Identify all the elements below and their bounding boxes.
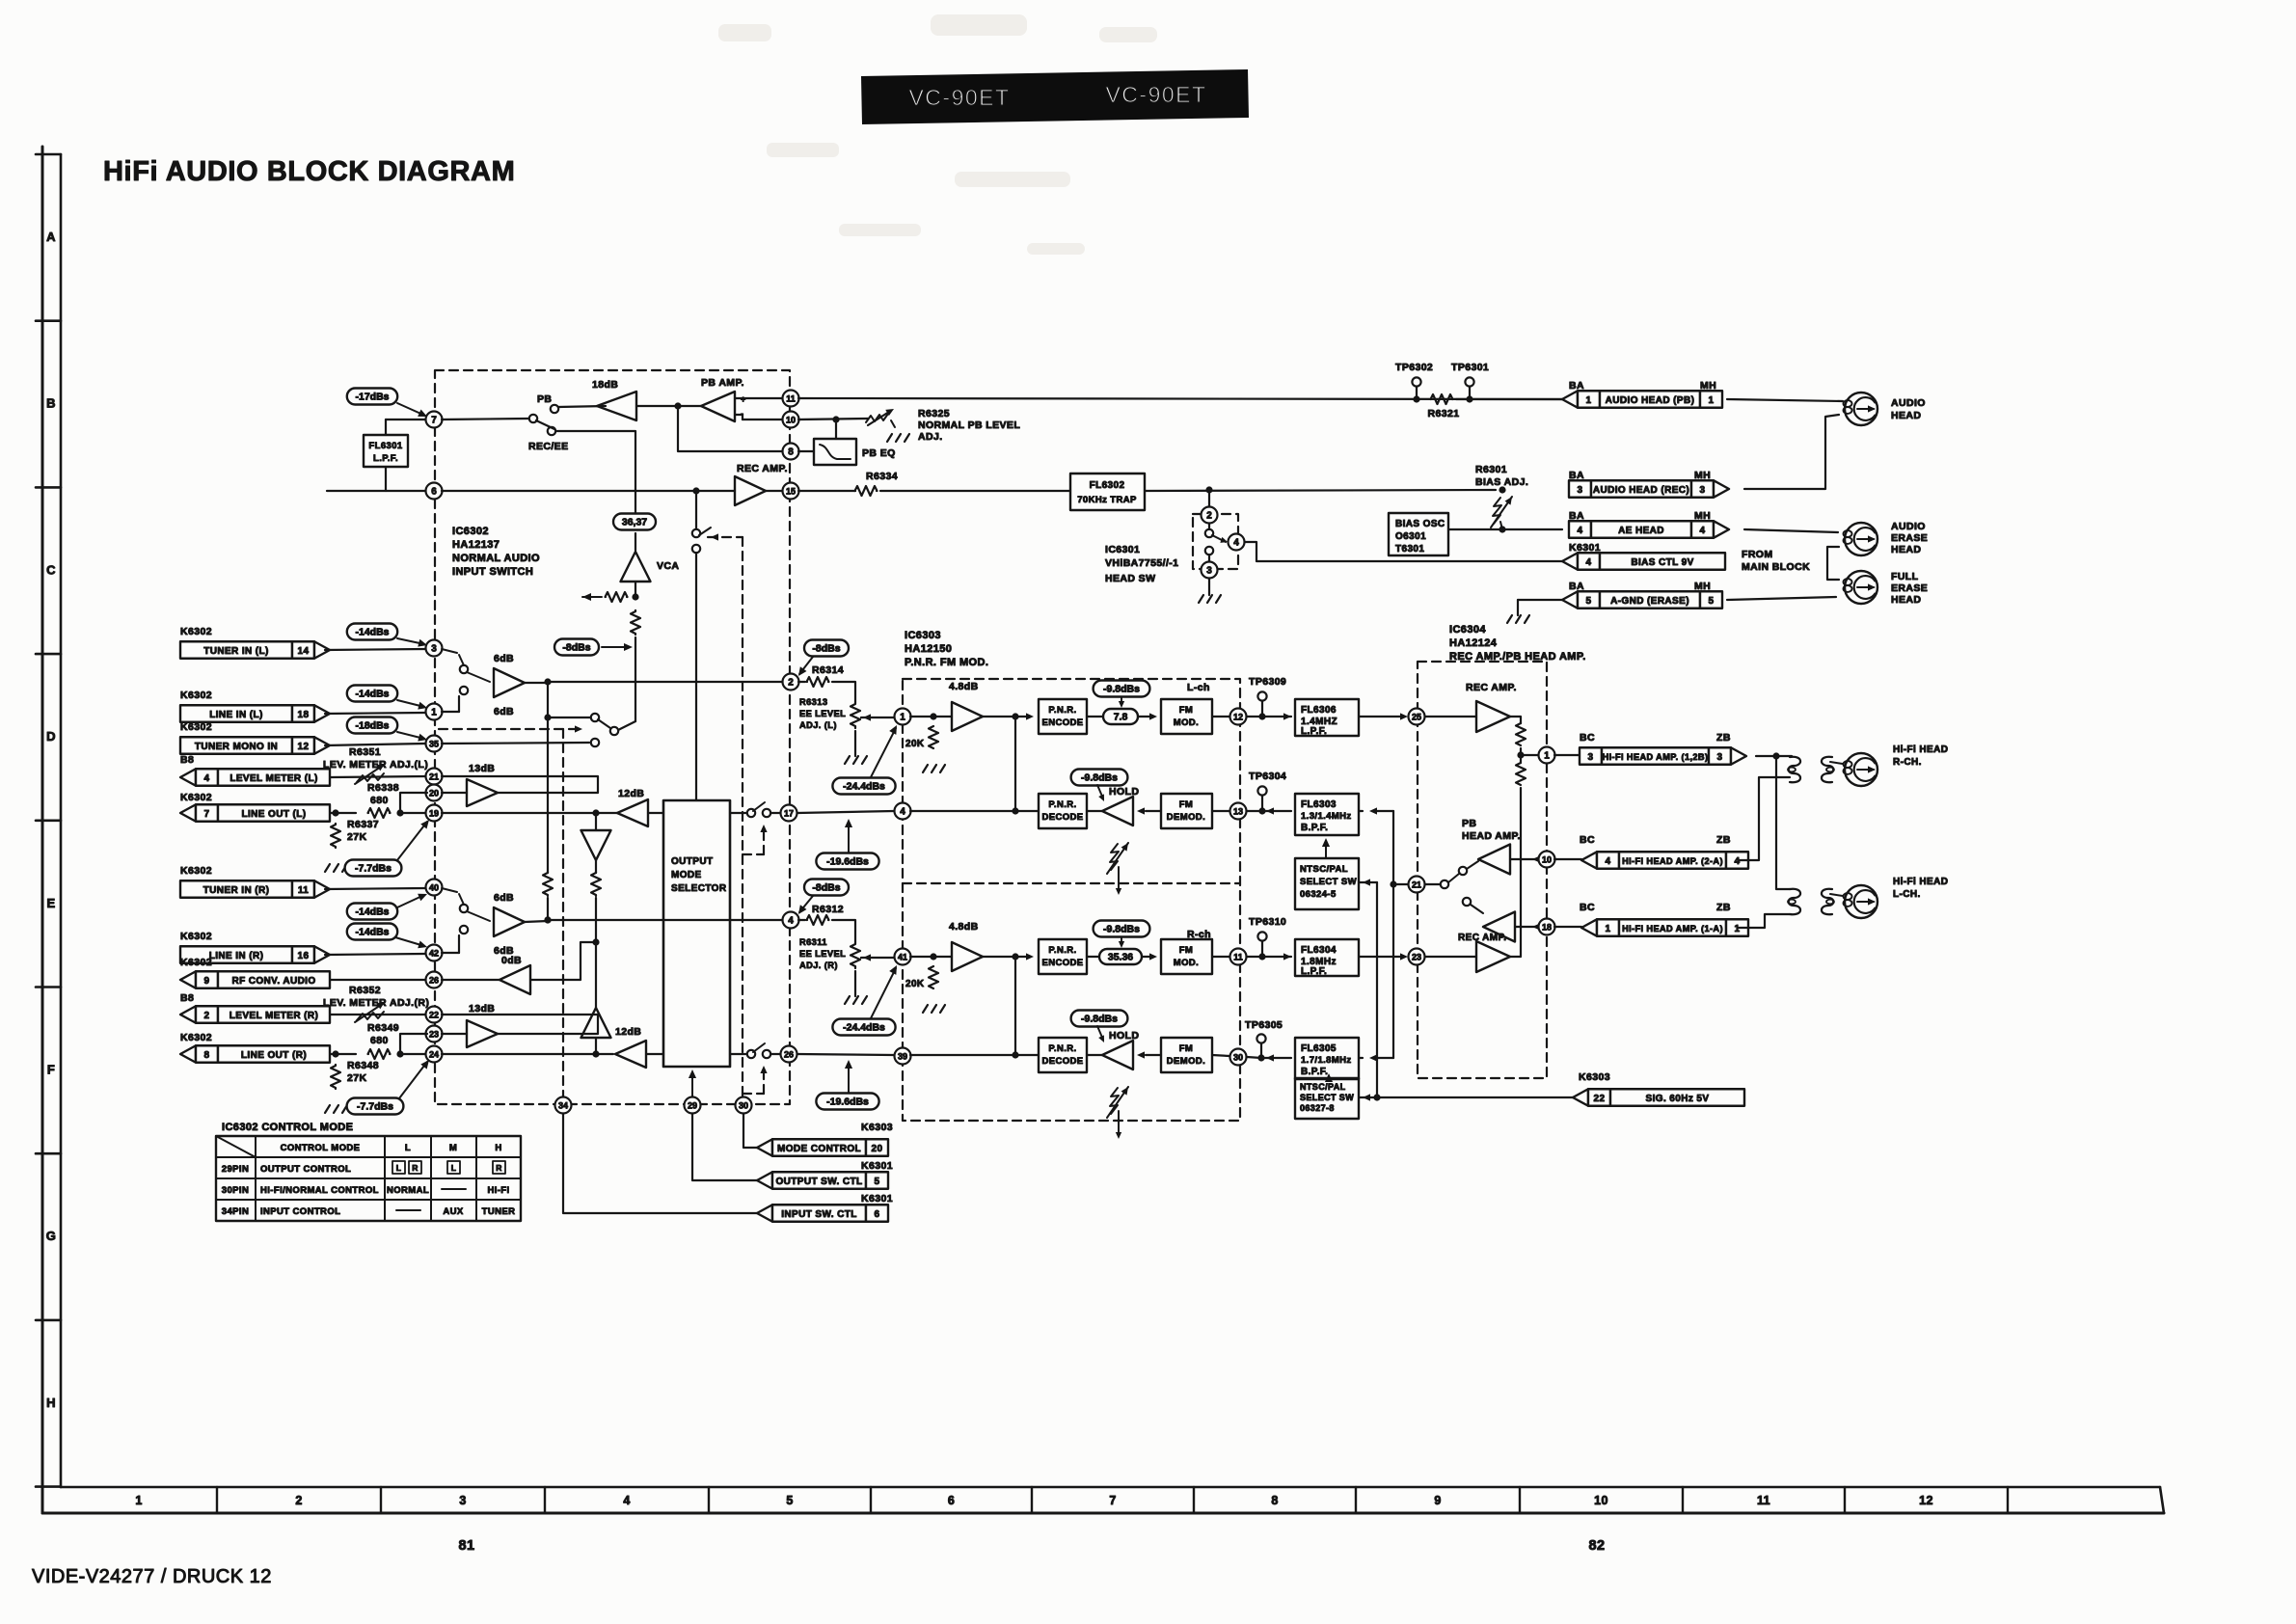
svg-text:NORMAL AUDIO: NORMAL AUDIO — [452, 553, 540, 564]
resistor divider lower — [1516, 763, 1526, 785]
arrow -9.8 dec L — [1097, 785, 1103, 798]
node R6348 tap — [332, 1050, 338, 1057]
svg-text:1: 1 — [1544, 750, 1550, 761]
svg-text:F: F — [47, 1063, 55, 1077]
connector AE HEAD — [1569, 521, 1591, 538]
svg-text:27K: 27K — [347, 831, 366, 843]
pin 29 IC6302 — [685, 1097, 701, 1114]
rec level resistor with arrow — [635, 582, 636, 597]
svg-text:ZB: ZB — [1716, 902, 1731, 913]
svg-text:1.3/1.4MHz: 1.3/1.4MHz — [1301, 811, 1352, 822]
svg-text:6: 6 — [875, 1209, 880, 1220]
svg-text:27K: 27K — [347, 1072, 366, 1084]
svg-text:TUNER IN (L): TUNER IN (L) — [203, 646, 269, 657]
wire 13dB L feedback loop — [442, 776, 598, 793]
wire encode-decode R link — [1014, 957, 1016, 1055]
wire R transformer to head — [1830, 762, 1843, 764]
wire pb amps to divider — [1510, 858, 1521, 860]
amplifier 6dB L — [494, 668, 525, 697]
pin 23 IC6304 — [1409, 949, 1425, 965]
pin 39 IC6303 — [895, 1048, 911, 1065]
svg-text:LINE OUT (L): LINE OUT (L) — [241, 809, 306, 820]
connector INPUT SW CTL 6 — [757, 1204, 772, 1222]
wire R head link down — [1776, 756, 1790, 889]
svg-text:NORMAL PB LEVEL: NORMAL PB LEVEL — [918, 420, 1020, 431]
svg-text:MAIN BLOCK: MAIN BLOCK — [1742, 561, 1810, 573]
svg-text:3: 3 — [1588, 752, 1594, 763]
svg-text:4: 4 — [1735, 856, 1741, 867]
svg-text:-17dBs: -17dBs — [355, 392, 389, 403]
pot R6352 — [331, 1014, 425, 1015]
wire pin30 to mode control — [743, 1114, 757, 1148]
svg-text:K6303: K6303 — [861, 1122, 893, 1133]
svg-text:ERASE: ERASE — [1891, 532, 1928, 544]
svg-text:LEVEL METER (L): LEVEL METER (L) — [230, 773, 317, 784]
wire pin17 to PNR decode L — [797, 811, 894, 813]
svg-text:MOD.: MOD. — [1174, 958, 1199, 968]
svg-text:-19.6dBs: -19.6dBs — [826, 856, 869, 868]
svg-text:29: 29 — [688, 1100, 697, 1110]
svg-text:1: 1 — [1586, 395, 1592, 406]
svg-text:5: 5 — [1586, 596, 1592, 607]
pin 42 IC6302 — [426, 945, 443, 961]
svg-text:SELECT SW: SELECT SW — [1300, 877, 1357, 887]
connector OUTPUT SW CTL 5 — [757, 1172, 772, 1189]
svg-text:AUDIO: AUDIO — [1891, 521, 1926, 532]
svg-text:IC6301: IC6301 — [1105, 544, 1140, 555]
svg-text:TP6301: TP6301 — [1451, 362, 1489, 373]
svg-text:-14dBs: -14dBs — [355, 627, 389, 638]
svg-text:26: 26 — [429, 975, 439, 985]
connector BIAS CTL 9V — [1562, 553, 1578, 570]
svg-text:G: G — [46, 1229, 57, 1243]
label -14dBs line L — [347, 686, 397, 702]
svg-text:INPUT SW. CTL: INPUT SW. CTL — [781, 1209, 857, 1220]
pin 3 IC6301 — [1202, 562, 1218, 579]
svg-text:R6348: R6348 — [347, 1060, 379, 1071]
label -14dBs tuner R — [347, 904, 397, 920]
connector A-GND (ERASE) — [1562, 591, 1578, 609]
node decode L in — [1012, 807, 1018, 814]
arrow -8dBs to chain — [602, 646, 629, 648]
svg-text:BIAS ADJ.: BIAS ADJ. — [1475, 476, 1528, 488]
svg-text:EE LEVEL: EE LEVEL — [799, 949, 846, 959]
wire pin26 to PNR decode R — [797, 1054, 894, 1055]
svg-text:6: 6 — [948, 1494, 955, 1507]
wire tuner in R to pin 40 — [325, 888, 425, 889]
pin 30 IC6303 — [1212, 1055, 1229, 1056]
svg-text:D: D — [46, 729, 56, 744]
svg-text:K6301: K6301 — [861, 1160, 893, 1172]
label -19.6dBs L — [816, 853, 878, 870]
node R6337 tap — [332, 809, 338, 816]
node PB amp output junction — [674, 402, 681, 409]
connector LINE IN (L) 18 — [180, 705, 292, 722]
connector HiFi HEAD AMP (1,2B) — [1554, 754, 1580, 756]
svg-text:FROM: FROM — [1742, 549, 1773, 560]
wire 2-A to R transformer — [1739, 777, 1790, 860]
svg-text:-9.8dBs: -9.8dBs — [1103, 684, 1140, 695]
wire to pin 20 — [400, 793, 427, 813]
pin 2 IC6302 — [783, 674, 799, 690]
IC U6302 dashed outline — [435, 370, 790, 1104]
svg-text:PB: PB — [537, 393, 552, 405]
svg-text:VHiBA7755//-1: VHiBA7755//-1 — [1105, 557, 1178, 569]
svg-text:12: 12 — [1919, 1494, 1933, 1507]
block P.N.R. ENCODE L — [1039, 699, 1087, 734]
oscillator BIAS OSC — [1389, 513, 1448, 555]
svg-text:-14dBs: -14dBs — [355, 689, 389, 700]
svg-text:PB EQ: PB EQ — [862, 447, 896, 459]
left ruler — [41, 147, 44, 1513]
svg-text:11: 11 — [298, 885, 309, 896]
pin 26 IC6302 — [426, 972, 443, 988]
connector SIG 60Hz 5V — [1573, 1089, 1588, 1106]
svg-text:34: 34 — [558, 1100, 568, 1110]
pin 4 IC6302 — [783, 912, 799, 929]
svg-text:70KHz TRAP: 70KHz TRAP — [1077, 495, 1137, 505]
svg-text:8: 8 — [204, 1050, 210, 1061]
dashed output ctl bus — [742, 537, 743, 1104]
connector HiFi HEAD AMP (1-A) — [1554, 926, 1581, 928]
svg-text:-7.7dBs: -7.7dBs — [355, 863, 392, 875]
svg-text:ENCODE: ENCODE — [1041, 717, 1083, 728]
node mono bus rf tap — [592, 938, 599, 945]
svg-text:MODE CONTROL: MODE CONTROL — [777, 1144, 861, 1154]
svg-text:REC/EE: REC/EE — [528, 441, 569, 452]
connector MODE CONTROL 20 — [757, 1139, 772, 1156]
node encode R split — [983, 956, 1030, 958]
svg-text:12dB: 12dB — [615, 1026, 641, 1038]
svg-text:Hi-Fi HEAD AMP. (1,2B): Hi-Fi HEAD AMP. (1,2B) — [1603, 752, 1709, 762]
pin 13 IC6303 — [1212, 810, 1229, 812]
svg-text:RF CONV. AUDIO: RF CONV. AUDIO — [231, 976, 315, 987]
node hifi R head split — [1756, 755, 1792, 757]
node vca resistor junction — [632, 593, 638, 600]
pot R6351 — [331, 776, 425, 777]
svg-text:DECODE: DECODE — [1041, 1056, 1083, 1067]
wire tuner mono to pin35 — [325, 744, 425, 745]
arrow -19.6dBs R — [848, 1063, 850, 1093]
svg-text:-9.8dBs: -9.8dBs — [1081, 1014, 1118, 1025]
svg-text:P.N.R. FM MOD.: P.N.R. FM MOD. — [905, 657, 988, 668]
connector AUDIO HEAD (PB) — [1562, 391, 1578, 408]
node x568 at 744 — [544, 714, 551, 720]
node AE line junction — [1499, 526, 1505, 532]
IC U6303 dashed outline — [903, 679, 1240, 1121]
pin 12 IC6303 — [1212, 716, 1229, 717]
wire bias osc to AE connector — [1448, 528, 1562, 530]
svg-text:E: E — [46, 896, 55, 910]
wire 6dB L out to L-ch node — [525, 682, 548, 684]
svg-text:R6321: R6321 — [1428, 408, 1460, 420]
connector TUNER IN (L) 14 — [180, 641, 292, 659]
label -24.4dBs L — [832, 778, 895, 795]
node select bus bottom — [1373, 1094, 1380, 1100]
svg-text:FL6304: FL6304 — [1301, 945, 1337, 956]
wire line in L to pin1 — [325, 713, 425, 714]
svg-text:1: 1 — [1606, 924, 1611, 934]
wire FL select bus vertical — [1392, 811, 1394, 1058]
svg-text:-8dBs: -8dBs — [562, 642, 590, 654]
svg-text:680: 680 — [370, 795, 389, 806]
ground R6311 — [854, 971, 856, 996]
svg-text:20: 20 — [872, 1144, 883, 1154]
svg-text:-18dBs: -18dBs — [355, 720, 389, 732]
amplifier PB head amp lower — [1483, 912, 1515, 942]
svg-text:R6314: R6314 — [812, 664, 844, 676]
svg-text:R: R — [412, 1163, 419, 1173]
svg-text:CONTROL MODE: CONTROL MODE — [281, 1143, 361, 1153]
node on R-ch wire x568 — [544, 916, 551, 923]
svg-text:680: 680 — [370, 1035, 389, 1046]
svg-text:NTSC/PAL: NTSC/PAL — [1300, 1082, 1346, 1092]
svg-text:ERASE: ERASE — [1891, 582, 1928, 594]
svg-text:24: 24 — [429, 1049, 439, 1059]
pin 7 IC6302 — [426, 412, 443, 428]
svg-text:4: 4 — [1700, 526, 1706, 536]
svg-text:ENCODE: ENCODE — [1041, 958, 1083, 968]
svg-text:A-GND (ERASE): A-GND (ERASE) — [1610, 596, 1689, 607]
svg-text:23: 23 — [1412, 952, 1421, 961]
svg-text:16: 16 — [298, 951, 310, 961]
svg-text:29PIN: 29PIN — [222, 1164, 249, 1175]
pin 21 IC6304 — [1409, 877, 1425, 893]
svg-text:BIAS CTL 9V: BIAS CTL 9V — [1631, 557, 1693, 568]
svg-text:39: 39 — [898, 1051, 907, 1061]
wire selector to output switch L — [730, 812, 747, 814]
pin 17 IC6302 — [770, 812, 782, 814]
svg-text:6: 6 — [431, 486, 437, 497]
svg-text:14: 14 — [298, 646, 310, 657]
resistor below VCA — [631, 610, 640, 635]
wire FL6301 to pin 6 — [385, 467, 387, 491]
svg-text:AUDIO: AUDIO — [1891, 397, 1926, 409]
svg-text:17: 17 — [784, 808, 794, 818]
svg-text:7: 7 — [1109, 1494, 1116, 1507]
svg-text:R6325: R6325 — [918, 408, 950, 420]
filter FL6303 — [1295, 794, 1359, 835]
bottom ruler — [42, 1512, 2164, 1515]
wire encode-decode L link — [1014, 717, 1016, 811]
svg-text:4: 4 — [900, 806, 905, 817]
wire pin7 to FL6301 — [386, 419, 425, 420]
svg-text:O6301: O6301 — [1395, 531, 1426, 542]
svg-text:PB: PB — [1462, 818, 1476, 829]
svg-text:HOLD: HOLD — [1109, 1030, 1139, 1042]
filter FL6305 — [1295, 1038, 1359, 1079]
svg-text:6dB: 6dB — [494, 653, 514, 664]
wire pin8 to PB EQ — [798, 450, 814, 452]
svg-text:VC-90ET: VC-90ET — [1105, 82, 1206, 107]
svg-text:PB AMP.: PB AMP. — [701, 377, 744, 389]
amplifier HOLD R — [1102, 1041, 1133, 1069]
input select switch R — [460, 905, 468, 912]
dashed input ctl bus — [439, 728, 579, 730]
ground IC6301 pin3 — [1208, 579, 1210, 595]
svg-text:K6302: K6302 — [180, 690, 212, 701]
resistor L-R mix left — [543, 872, 553, 896]
svg-text:4: 4 — [1606, 856, 1611, 867]
svg-text:BC: BC — [1580, 902, 1595, 913]
svg-text:06324-5: 06324-5 — [1300, 889, 1337, 900]
svg-text:ZB: ZB — [1716, 834, 1731, 846]
wire AE connector to erase head — [1744, 529, 1838, 532]
label -9.8dBs mod R — [1094, 921, 1150, 937]
pin 19 IC6302 — [426, 805, 443, 822]
transformer rotary L-CH — [1789, 889, 1800, 914]
wire line out L — [400, 812, 425, 814]
svg-text:TP6309: TP6309 — [1249, 676, 1286, 688]
dashed ctl to output switch R — [743, 1093, 764, 1095]
wire FL6305 input from select bus — [1373, 1057, 1393, 1059]
svg-text:23: 23 — [429, 1029, 439, 1039]
svg-text:-19.6dBs: -19.6dBs — [826, 1096, 869, 1108]
svg-text:INPUT CONTROL: INPUT CONTROL — [260, 1206, 340, 1217]
svg-text:HEAD: HEAD — [1891, 594, 1921, 606]
svg-text:TP6304: TP6304 — [1249, 771, 1286, 782]
output switch R — [747, 1050, 755, 1058]
node pin1 divider — [1517, 751, 1524, 758]
pot HOLD R — [1110, 1088, 1119, 1114]
svg-text:R6352: R6352 — [349, 985, 381, 996]
svg-text:-9.8dBs: -9.8dBs — [1081, 772, 1118, 784]
svg-text:7.8: 7.8 — [1114, 712, 1128, 723]
pot HOLD L — [1110, 844, 1119, 870]
node L-ch mix — [544, 678, 551, 685]
ground a-gnd line — [1518, 599, 1562, 601]
svg-text:Hi-Fi HEAD AMP. (2-A): Hi-Fi HEAD AMP. (2-A) — [1622, 856, 1723, 866]
svg-text:HEAD: HEAD — [1891, 410, 1921, 421]
wire pin10 node to PB EQ — [835, 420, 837, 439]
amplifier HOLD L — [1102, 797, 1133, 826]
transducer HiFi head L — [1845, 885, 1877, 918]
model name header bar — [861, 69, 1249, 124]
pin 30 IC6302 — [736, 1097, 752, 1114]
pin 15 IC6302 — [766, 490, 782, 492]
pot R6325 normal PB level adj — [868, 412, 889, 425]
wire R-ch through selector — [663, 919, 730, 921]
svg-text:DEMOD.: DEMOD. — [1167, 1056, 1205, 1067]
svg-text:LEVEL METER (R): LEVEL METER (R) — [230, 1011, 318, 1021]
arrow -8dBs to pin2 — [799, 657, 813, 674]
label -9.8dBs mod L — [1094, 681, 1150, 697]
node pin21 tap — [1390, 880, 1396, 887]
pin 10 IC6304 — [1521, 858, 1538, 860]
input select switch L — [460, 665, 468, 673]
svg-text:11: 11 — [1233, 952, 1243, 961]
svg-text:8: 8 — [1271, 1494, 1278, 1507]
wire a-gnd connector to full erase head — [1727, 597, 1836, 600]
svg-text:K6302: K6302 — [180, 865, 212, 877]
svg-text:18: 18 — [298, 710, 310, 720]
arrow -9.8 dec R — [1097, 1026, 1103, 1040]
svg-text:K6302: K6302 — [180, 957, 212, 968]
wire pin35 to aux contact — [442, 743, 589, 744]
pin 4 IC6303 — [895, 803, 911, 820]
svg-text:20: 20 — [429, 788, 439, 798]
svg-text:5: 5 — [786, 1494, 793, 1507]
transducer AUDIO ERASE HEAD — [1845, 523, 1877, 555]
wire PB connector to audio head — [1727, 399, 1843, 401]
svg-text:30: 30 — [1233, 1052, 1243, 1062]
pin 11 IC6302 — [735, 397, 782, 399]
wire 6dB R out to R-ch node — [525, 921, 548, 922]
svg-text:Hi-Fi: Hi-Fi — [487, 1185, 509, 1196]
label -8dBs L — [804, 640, 849, 657]
wire to FL6306 — [1247, 716, 1291, 717]
switch rec monitor — [692, 529, 700, 537]
svg-text:HOLD: HOLD — [1109, 786, 1139, 798]
svg-text:9: 9 — [1434, 1494, 1441, 1507]
svg-text:ZB: ZB — [1716, 732, 1731, 744]
svg-text:20K: 20K — [905, 739, 925, 749]
svg-text:10: 10 — [1594, 1494, 1608, 1507]
filter FL6302 70KHz trap — [1070, 474, 1145, 510]
svg-text:3: 3 — [1578, 485, 1583, 496]
block OUTPUT MODE SELECTOR — [663, 800, 730, 1067]
amplifier PB head amp upper — [1478, 845, 1510, 875]
svg-text:B8: B8 — [180, 754, 194, 766]
svg-text:22: 22 — [1594, 1094, 1606, 1104]
svg-text:18dB: 18dB — [592, 379, 618, 391]
pin 6 IC6302 — [426, 483, 443, 500]
block P.N.R. DECODE L — [1039, 794, 1087, 828]
svg-text:B.P.F.: B.P.F. — [1301, 1067, 1328, 1077]
wire rf conv to pin 26 — [331, 979, 425, 981]
wire selector to output switch R — [730, 1053, 747, 1055]
svg-text:11: 11 — [1757, 1494, 1770, 1507]
svg-text:L.P.F.: L.P.F. — [1301, 966, 1327, 977]
arrow to pin 35 — [397, 732, 424, 739]
svg-text:7: 7 — [204, 809, 210, 820]
svg-text:21: 21 — [1412, 880, 1421, 889]
filter FL6304 — [1295, 939, 1359, 976]
svg-text:2: 2 — [1206, 510, 1212, 521]
svg-text:R6311: R6311 — [799, 937, 827, 947]
svg-text:R: R — [496, 1163, 502, 1173]
wire tuner in L to pin3 — [325, 649, 425, 650]
amplifier VCA — [635, 533, 636, 551]
filter FL6301 — [364, 435, 408, 467]
svg-text:4: 4 — [1578, 526, 1583, 536]
pin 35 IC6302 — [426, 736, 443, 752]
wire to FL6304 — [1247, 956, 1291, 958]
svg-text:M: M — [449, 1143, 457, 1153]
svg-text:TP6310: TP6310 — [1249, 916, 1286, 928]
block NTSC/PAL SELECT SW R — [1295, 1078, 1359, 1119]
connector LINE IN (R) 16 — [180, 946, 292, 963]
svg-text:L: L — [396, 1163, 402, 1173]
svg-text:IC6302: IC6302 — [452, 526, 489, 537]
svg-text:INPUT SWITCH: INPUT SWITCH — [452, 566, 533, 578]
svg-text:3: 3 — [459, 1494, 466, 1507]
svg-text:K6303: K6303 — [1579, 1071, 1610, 1083]
svg-text:3: 3 — [1717, 752, 1723, 763]
node R-ch mix — [544, 916, 551, 923]
svg-text:K6302: K6302 — [180, 931, 212, 942]
wire REC connector to audio head — [1744, 415, 1839, 489]
ground R6325 — [887, 434, 909, 442]
svg-text:P.N.R.: P.N.R. — [1048, 1043, 1076, 1054]
svg-text:FL6301: FL6301 — [368, 441, 402, 451]
svg-text:4: 4 — [204, 773, 210, 784]
wire FL6303 input from select bus — [1373, 810, 1393, 812]
svg-text:21: 21 — [429, 771, 439, 781]
connector TUNER IN (R) 11 — [180, 880, 292, 898]
svg-text:35: 35 — [429, 739, 439, 748]
head switch contacts — [1205, 529, 1213, 537]
